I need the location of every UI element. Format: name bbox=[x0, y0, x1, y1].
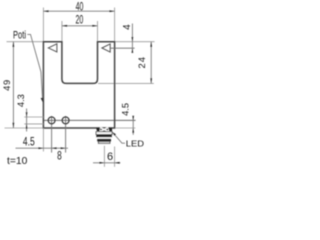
svg-text:Poti: Poti bbox=[13, 29, 26, 41]
dimension 49 line bbox=[13, 42, 15, 128]
extension line slot left up bbox=[61, 21, 63, 42]
mounting hole right vertical center tick + extension down bbox=[65, 116, 67, 153]
bottom edge extension left to 49 dim bbox=[5, 127, 44, 129]
mounting hole right bbox=[62, 117, 69, 124]
dimension 20 line bbox=[62, 25, 98, 27]
Poti leader line bbox=[27, 34, 42, 100]
Poti leader arrowhead bbox=[41, 98, 43, 103]
connector tip bbox=[98, 142, 110, 144]
connector thread band black 1 bbox=[96, 135, 112, 138]
extension line slot right up bbox=[97, 21, 99, 42]
body outline (fork shape) bbox=[43, 42, 114, 128]
connector right ear (black, LED) bbox=[109, 128, 112, 132]
svg-text:4.5: 4.5 bbox=[23, 137, 35, 149]
dimension 4.3 tangent extension lines bbox=[24, 116, 43, 118]
dimension 6 line bbox=[93, 162, 120, 164]
LED leader line bbox=[113, 133, 125, 143]
extension line right body edge up bbox=[114, 8, 116, 42]
LED leader arrowhead bbox=[112, 132, 116, 136]
connector body band 1 bbox=[96, 132, 112, 135]
dimension 4.5 bottom / 8 shared line bbox=[16, 147, 69, 149]
right optics triangle bbox=[102, 44, 110, 52]
dimension 4.5 right line bbox=[132, 116, 134, 135]
svg-text:4: 4 bbox=[122, 24, 133, 30]
top edge extension to 49 dim (left) bbox=[7, 41, 44, 43]
svg-text:LED: LED bbox=[126, 138, 144, 148]
connector knurl block with X pattern bbox=[100, 128, 108, 132]
svg-text:4.3: 4.3 bbox=[16, 94, 26, 107]
connector thread band black 2 bbox=[97, 139, 111, 142]
bottom edge extension right to 4.5 dim bbox=[115, 127, 136, 129]
dimension 24 line bbox=[150, 42, 152, 84]
hole centerline and right extension bbox=[43, 119, 135, 121]
mounting hole left vertical center tick + extension down bbox=[51, 116, 53, 153]
extension line left body edge up bbox=[42, 8, 44, 42]
connector thread gap bbox=[97, 137, 111, 139]
top edge extension to 4 and 24 dims (right) bbox=[115, 41, 155, 43]
slot bottom extension to 24 dim bbox=[98, 82, 154, 84]
svg-text:8: 8 bbox=[57, 151, 62, 163]
extension of body left edge down bbox=[42, 128, 44, 152]
extension lines for 6 dim: connector axis and body right edge bbox=[103, 146, 105, 167]
svg-text:49: 49 bbox=[2, 79, 12, 91]
svg-text:24: 24 bbox=[136, 56, 147, 68]
dimension 4 line (right, window top to axis) bbox=[132, 24, 134, 53]
mounting hole left bbox=[48, 117, 55, 124]
dimension 4.3 line bbox=[26, 109, 28, 132]
svg-text:20: 20 bbox=[76, 14, 84, 26]
connector left ear (black) bbox=[96, 128, 99, 132]
left optics triangle bbox=[48, 44, 57, 52]
dimension 40 line bbox=[43, 10, 114, 12]
svg-text:t=10: t=10 bbox=[7, 156, 28, 167]
optical axis line right bbox=[110, 47, 134, 49]
svg-text:40: 40 bbox=[76, 2, 84, 14]
svg-text:4.5: 4.5 bbox=[121, 103, 131, 116]
svg-text:6: 6 bbox=[107, 151, 113, 163]
